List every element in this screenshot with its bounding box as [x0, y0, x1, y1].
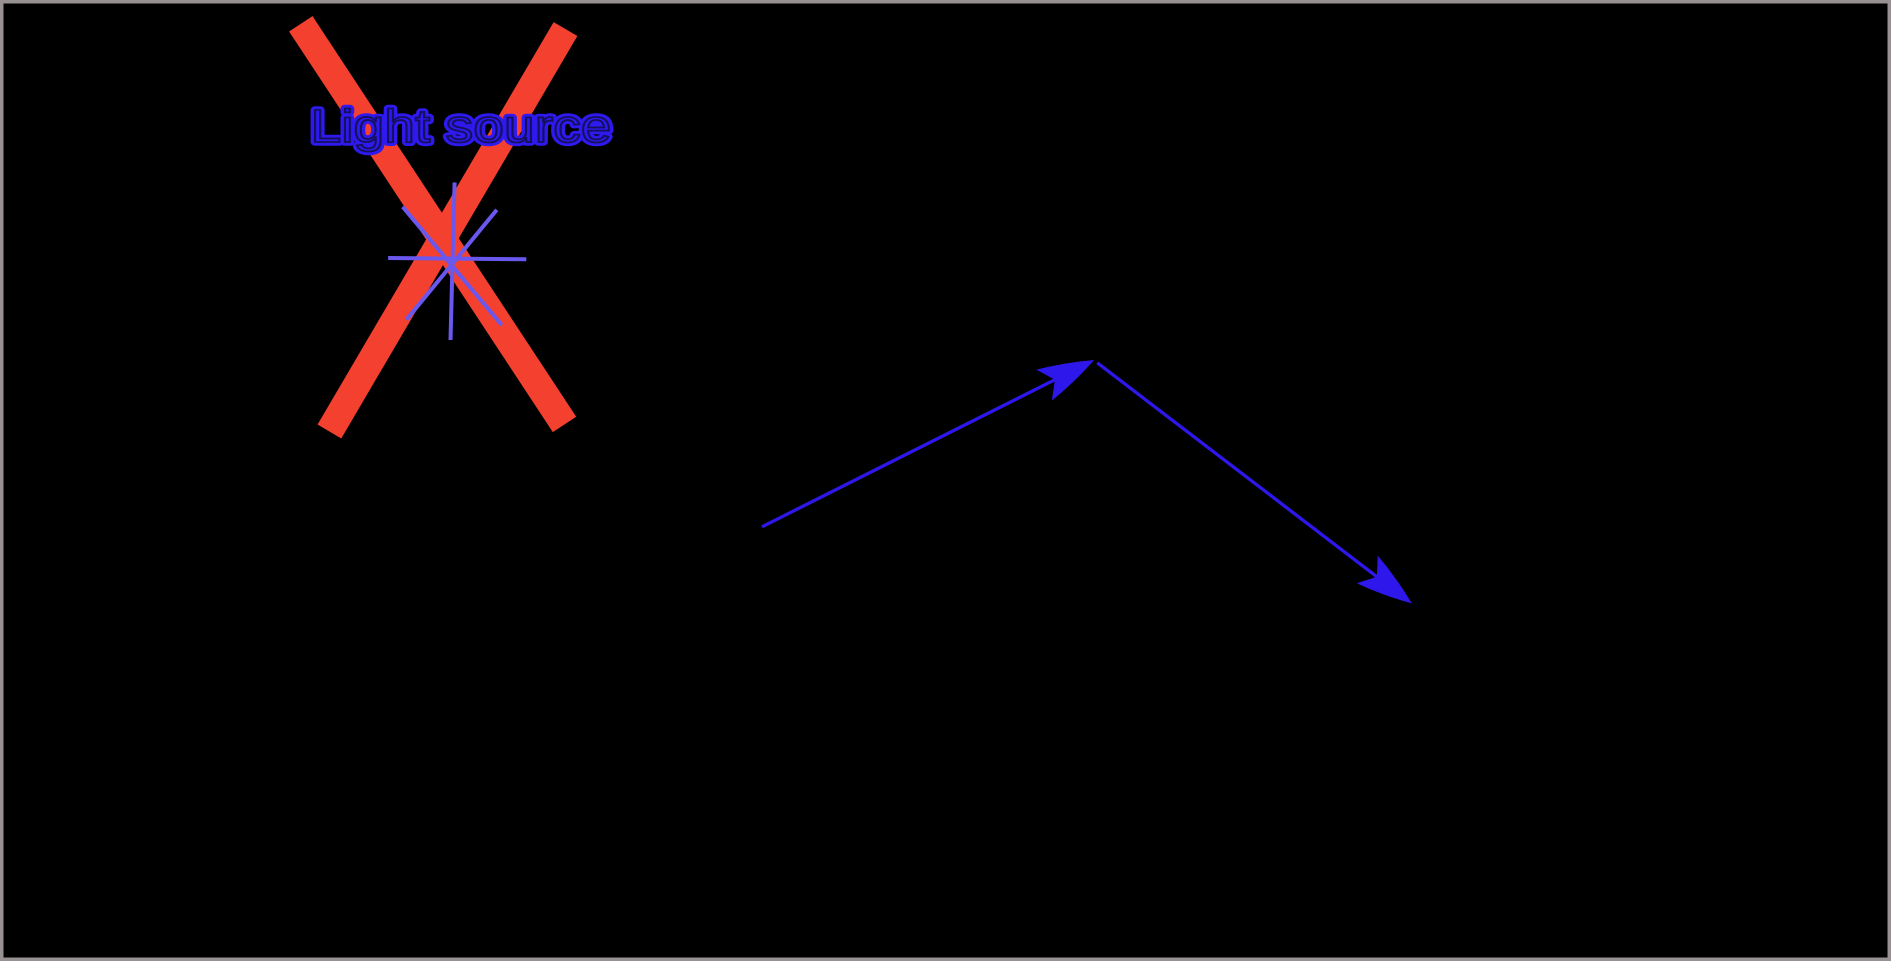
starburst ray diagonal NE-SW: [406, 210, 496, 320]
starburst ray vertical: [451, 182, 455, 340]
arrow 1 shaft: [762, 380, 1055, 527]
arrow 2 head: [1357, 556, 1423, 617]
arrow 2 shaft: [1097, 363, 1377, 577]
svg-text:Light source: Light source: [311, 100, 612, 152]
starburst ray diagonal NW-SE: [403, 207, 502, 325]
starburst ray horizontal: [388, 258, 526, 259]
arrow 1 head: [1036, 345, 1102, 401]
red X stroke 1 (top-left to bottom-right): [301, 24, 565, 425]
red X stroke 2 (top-right to bottom-left): [329, 29, 565, 431]
